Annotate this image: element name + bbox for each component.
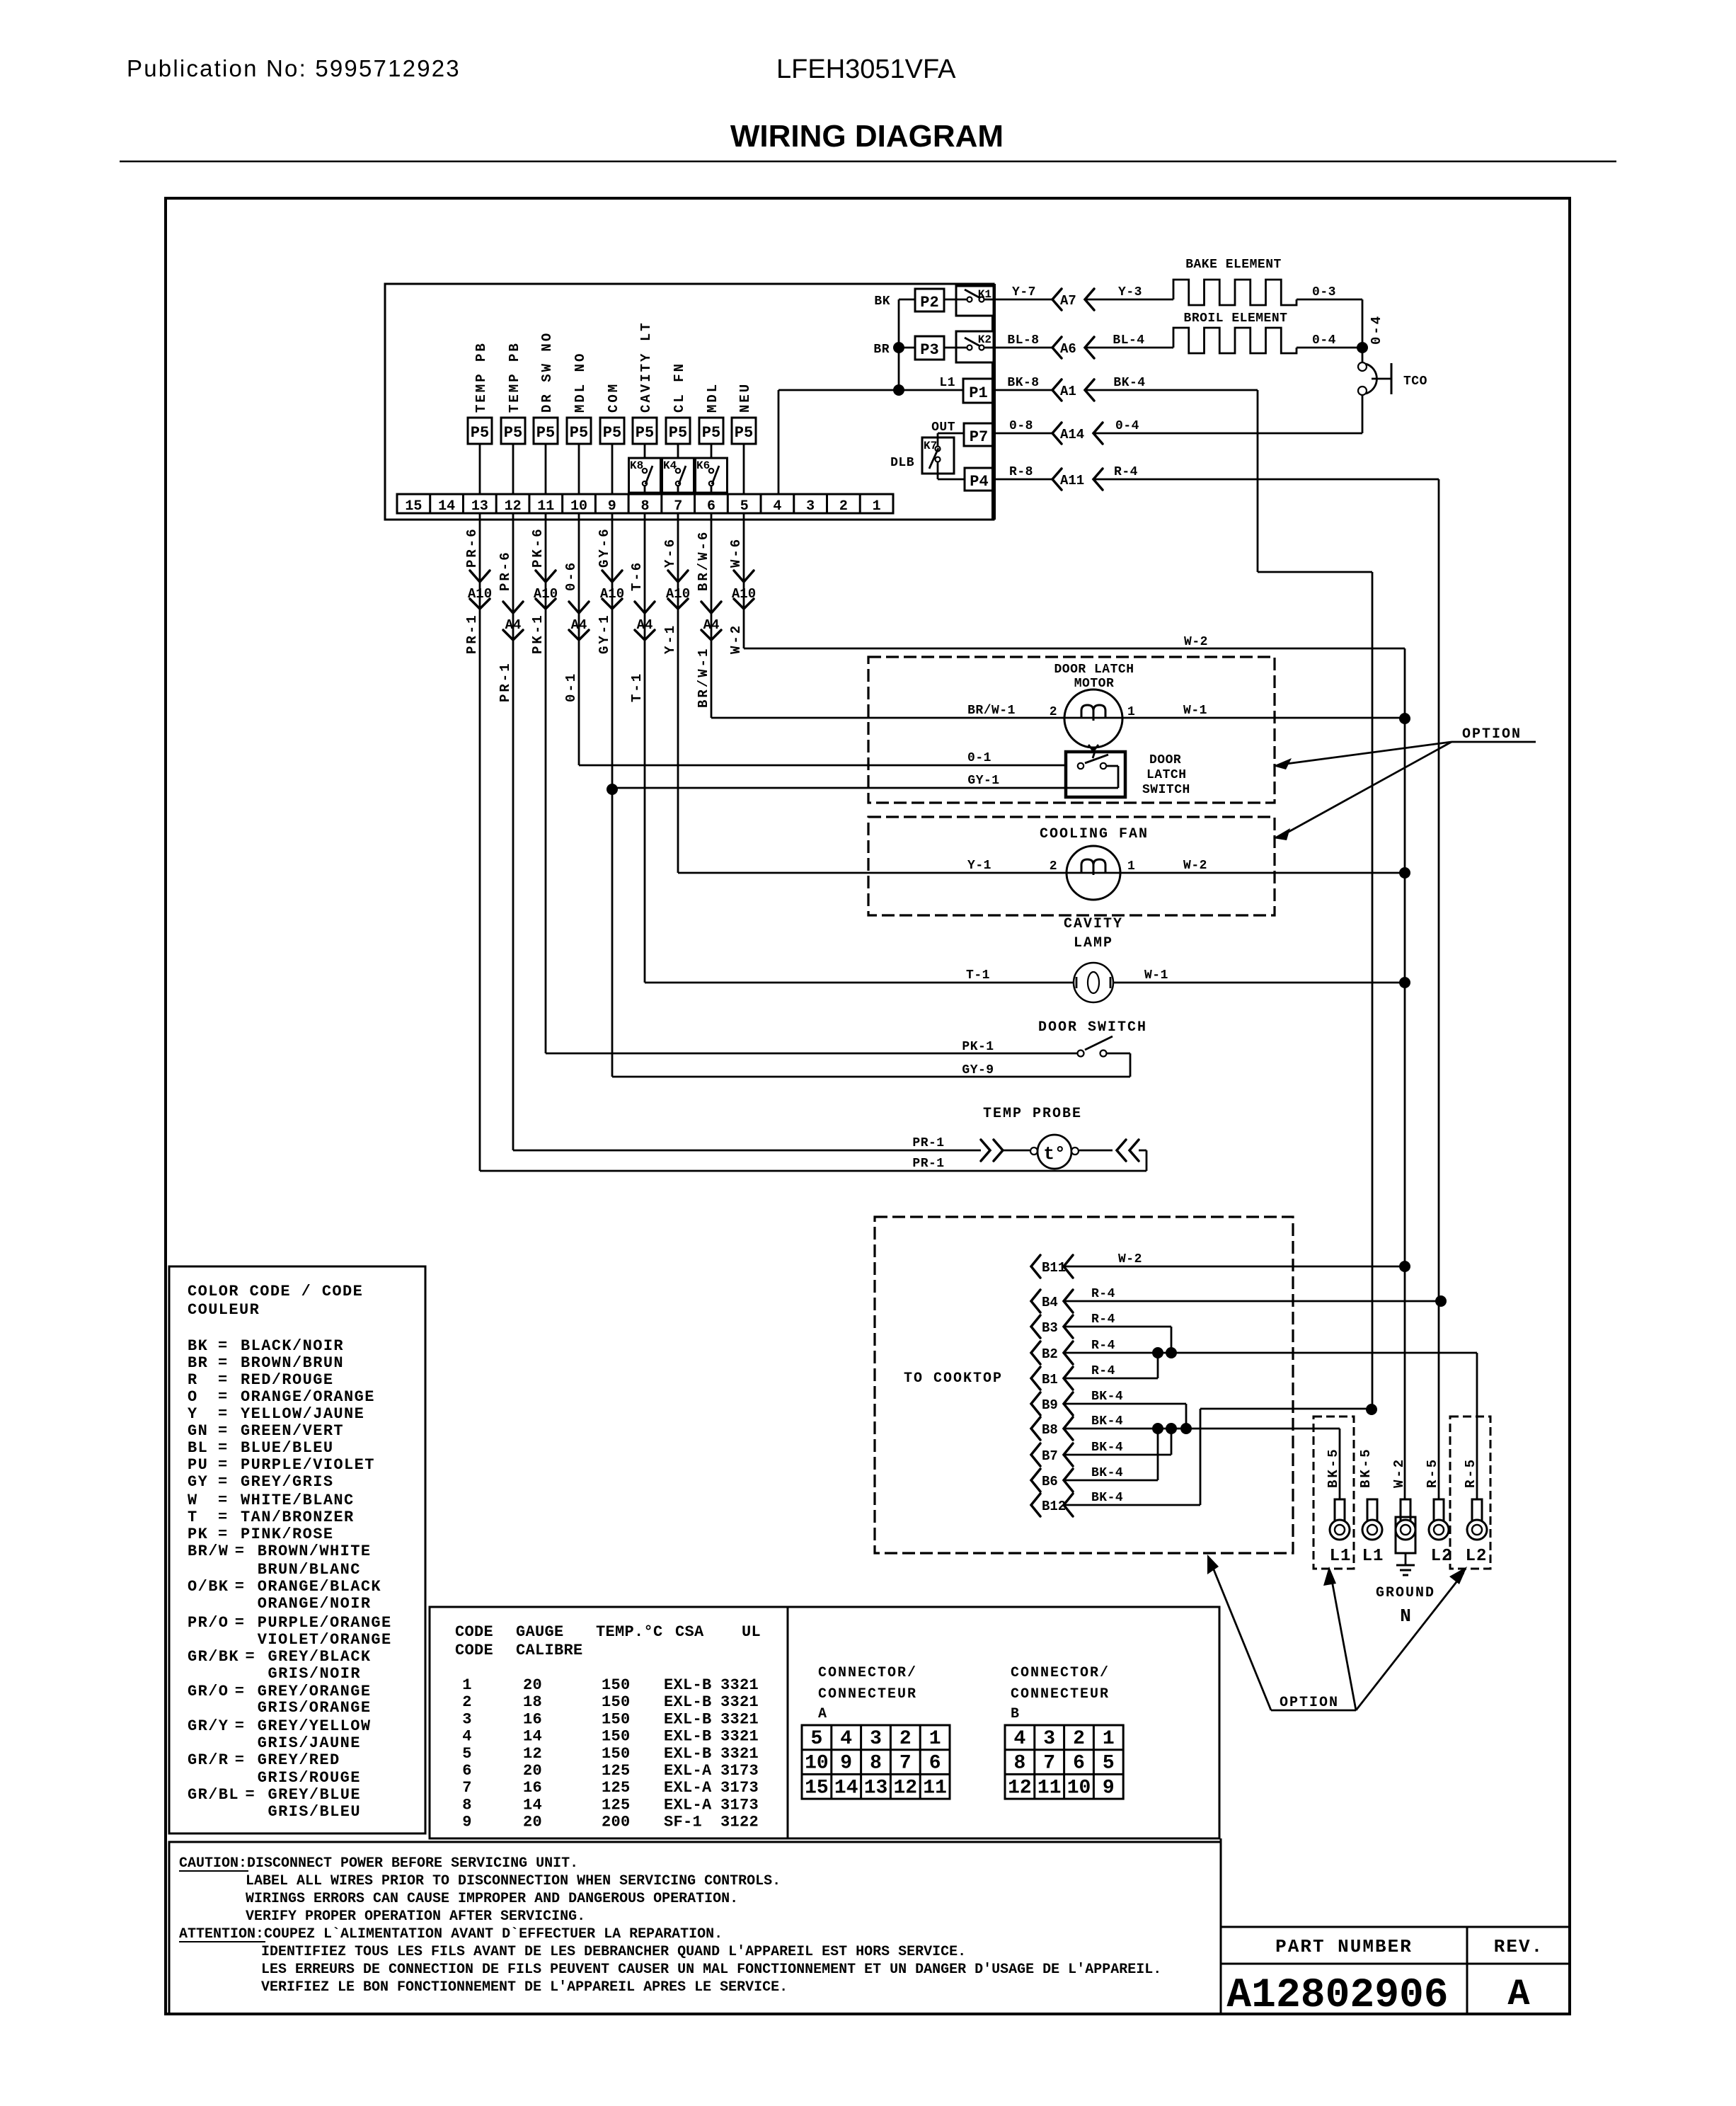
svg-text:EXL-B: EXL-B <box>664 1676 712 1694</box>
svg-text:BR: BR <box>873 343 890 357</box>
svg-text:B2: B2 <box>1042 1346 1058 1362</box>
svg-text:EXL-A: EXL-A <box>664 1779 712 1797</box>
svg-text:GREY/GRIS: GREY/GRIS <box>241 1473 333 1491</box>
svg-text:P1: P1 <box>969 384 987 402</box>
svg-text:1: 1 <box>873 498 881 515</box>
svg-text:9: 9 <box>1103 1777 1115 1799</box>
svg-text:MDL: MDL <box>705 382 720 413</box>
svg-text:GREY/BLACK: GREY/BLACK <box>268 1648 372 1666</box>
svg-text:=: = <box>218 1354 229 1372</box>
svg-text:3173: 3173 <box>720 1762 759 1780</box>
svg-text:20: 20 <box>523 1676 542 1694</box>
svg-text:7: 7 <box>1043 1753 1055 1775</box>
svg-text:W-1: W-1 <box>1183 704 1207 718</box>
svg-text:YELLOW/JAUNE: YELLOW/JAUNE <box>241 1405 364 1423</box>
svg-text:0-3: 0-3 <box>1312 285 1336 299</box>
svg-text:0-6: 0-6 <box>563 561 579 591</box>
svg-text:2: 2 <box>839 498 848 515</box>
svg-text:EXL-A: EXL-A <box>664 1762 712 1780</box>
svg-text:8: 8 <box>462 1796 472 1814</box>
svg-text:=: = <box>235 1614 246 1632</box>
svg-text:P5: P5 <box>603 424 621 442</box>
svg-text:3: 3 <box>462 1710 472 1728</box>
svg-text:6: 6 <box>462 1762 472 1780</box>
svg-text:3321: 3321 <box>720 1710 759 1728</box>
svg-text:A1: A1 <box>1060 384 1076 399</box>
svg-text:W-2: W-2 <box>1118 1252 1142 1266</box>
svg-text:L1: L1 <box>1330 1547 1352 1566</box>
svg-text:7: 7 <box>899 1753 912 1775</box>
svg-text:PR-1: PR-1 <box>912 1157 944 1171</box>
svg-text:K8: K8 <box>630 459 643 472</box>
svg-text:GRIS/BLEU: GRIS/BLEU <box>268 1803 361 1821</box>
svg-text:CAVITY: CAVITY <box>1064 916 1123 932</box>
svg-text:BR/W-6: BR/W-6 <box>696 530 711 591</box>
svg-text:BR/W: BR/W <box>188 1543 229 1560</box>
svg-text:Publication No: 5995712923: Publication No: 5995712923 <box>127 55 461 81</box>
svg-text:R: R <box>188 1371 198 1389</box>
svg-text:BK-5: BK-5 <box>1326 1447 1341 1488</box>
svg-text:K6: K6 <box>696 459 710 472</box>
svg-text:EXL-A: EXL-A <box>664 1796 712 1814</box>
svg-text:PR-1: PR-1 <box>464 613 480 654</box>
svg-text:B8: B8 <box>1042 1422 1058 1438</box>
svg-text:BL-4: BL-4 <box>1113 333 1144 348</box>
svg-text:BL-8: BL-8 <box>1007 333 1039 348</box>
svg-text:DOOR SWITCH: DOOR SWITCH <box>1038 1019 1147 1036</box>
svg-text:COM: COM <box>606 382 621 413</box>
svg-text:A6: A6 <box>1060 341 1076 357</box>
svg-text:B3: B3 <box>1042 1320 1058 1336</box>
svg-text:150: 150 <box>602 1676 631 1694</box>
svg-text:GROUND: GROUND <box>1376 1585 1435 1601</box>
svg-text:125: 125 <box>602 1762 631 1780</box>
svg-text:=: = <box>235 1543 246 1560</box>
svg-text:1: 1 <box>929 1728 941 1750</box>
svg-text:SF-1: SF-1 <box>664 1814 702 1831</box>
svg-text:Y-1: Y-1 <box>967 859 991 873</box>
svg-text:WIRINGS ERRORS CAN CAUSE IMPRO: WIRINGS ERRORS CAN CAUSE IMPROPER AND DA… <box>246 1891 738 1907</box>
svg-text:A14: A14 <box>1060 427 1084 442</box>
svg-text:4: 4 <box>840 1728 852 1750</box>
svg-text:6: 6 <box>707 498 715 515</box>
svg-text:2: 2 <box>1050 705 1057 719</box>
svg-text:R-5: R-5 <box>1463 1458 1478 1488</box>
svg-text:11: 11 <box>537 498 554 515</box>
svg-text:A4: A4 <box>637 617 653 633</box>
svg-text:W-2: W-2 <box>1391 1458 1407 1488</box>
svg-text:GREEN/VERT: GREEN/VERT <box>241 1422 344 1440</box>
svg-text:3173: 3173 <box>720 1796 759 1814</box>
svg-text:4: 4 <box>1013 1728 1025 1750</box>
svg-text:CODE: CODE <box>455 1642 493 1659</box>
svg-text:9: 9 <box>608 498 616 515</box>
svg-text:R-4: R-4 <box>1091 1287 1115 1301</box>
svg-text:3: 3 <box>870 1728 882 1750</box>
svg-text:R-4: R-4 <box>1091 1339 1115 1353</box>
svg-text:10: 10 <box>570 498 587 515</box>
svg-text:O: O <box>188 1388 198 1406</box>
svg-text:K2: K2 <box>978 333 991 346</box>
svg-text:GAUGE: GAUGE <box>516 1623 564 1641</box>
svg-text:B1: B1 <box>1042 1372 1058 1387</box>
svg-text:0-4: 0-4 <box>1312 333 1336 348</box>
svg-text:CSA: CSA <box>675 1623 704 1641</box>
svg-text:GN: GN <box>188 1422 208 1440</box>
svg-text:GR/O: GR/O <box>188 1683 229 1700</box>
svg-text:Y-6: Y-6 <box>662 537 678 568</box>
svg-text:BR: BR <box>188 1354 208 1372</box>
svg-text:2: 2 <box>1050 859 1057 874</box>
svg-text:LES ERREURS DE CONNECTION DE F: LES ERREURS DE CONNECTION DE FILS PEUVEN… <box>261 1962 1161 1978</box>
svg-text:A12802906: A12802906 <box>1226 1973 1448 2019</box>
svg-text:0-8: 0-8 <box>1009 419 1033 433</box>
svg-text:B: B <box>1011 1706 1021 1722</box>
svg-text:CONNECTEUR: CONNECTEUR <box>1011 1686 1110 1702</box>
svg-text:GREY/BLUE: GREY/BLUE <box>268 1786 361 1804</box>
svg-text:=: = <box>218 1509 229 1526</box>
svg-text:=: = <box>218 1492 229 1509</box>
svg-text:A4: A4 <box>571 617 587 633</box>
svg-text:PK: PK <box>188 1526 208 1543</box>
svg-text:DOOR: DOOR <box>1149 753 1181 767</box>
svg-text:PINK/ROSE: PINK/ROSE <box>241 1526 333 1543</box>
svg-text:10: 10 <box>805 1753 829 1775</box>
svg-text:BK-4: BK-4 <box>1091 1390 1123 1404</box>
svg-text:2: 2 <box>1073 1728 1085 1750</box>
svg-text:LATCH: LATCH <box>1146 768 1187 782</box>
svg-text:L1: L1 <box>1362 1547 1384 1566</box>
svg-text:1: 1 <box>1127 705 1135 719</box>
svg-text:GR/Y: GR/Y <box>188 1717 229 1735</box>
svg-text:Y: Y <box>188 1405 198 1423</box>
svg-text:P5: P5 <box>669 424 687 442</box>
svg-text:GR/BL: GR/BL <box>188 1786 239 1804</box>
svg-text:P5: P5 <box>636 424 654 442</box>
svg-text:8: 8 <box>641 498 650 515</box>
svg-text:4: 4 <box>773 498 781 515</box>
svg-text:B7: B7 <box>1042 1448 1058 1464</box>
svg-text:W-1: W-1 <box>1144 968 1168 983</box>
svg-text:3321: 3321 <box>720 1728 759 1746</box>
svg-text:=: = <box>235 1578 246 1596</box>
svg-text:BK-8: BK-8 <box>1007 376 1039 390</box>
svg-text:=: = <box>218 1371 229 1389</box>
svg-text:DOOR LATCH: DOOR LATCH <box>1054 663 1134 677</box>
svg-text:COULEUR: COULEUR <box>188 1301 260 1319</box>
svg-text:9: 9 <box>840 1753 852 1775</box>
svg-text:13: 13 <box>471 498 488 515</box>
svg-text:COOLING FAN: COOLING FAN <box>1040 826 1149 842</box>
svg-text:3321: 3321 <box>720 1693 759 1711</box>
svg-text:W-2: W-2 <box>1183 859 1207 873</box>
svg-text:GR/BK: GR/BK <box>188 1648 239 1666</box>
svg-text:PR-1: PR-1 <box>498 661 513 702</box>
svg-text:N: N <box>1400 1606 1411 1627</box>
svg-text:IDENTIFIEZ TOUS LES FILS AVANT: IDENTIFIEZ TOUS LES FILS AVANT DE LES DE… <box>261 1944 966 1960</box>
svg-text:1: 1 <box>462 1676 472 1694</box>
svg-text:P5: P5 <box>471 424 489 442</box>
svg-text:WHITE/BLANC: WHITE/BLANC <box>241 1492 355 1509</box>
svg-text:CAVITY LT: CAVITY LT <box>638 321 654 413</box>
svg-text:L1: L1 <box>939 376 955 390</box>
svg-text:P5: P5 <box>702 424 720 442</box>
svg-text:BROWN/WHITE: BROWN/WHITE <box>258 1543 372 1560</box>
svg-text:PR-1: PR-1 <box>912 1136 944 1150</box>
svg-text:A4: A4 <box>505 617 522 633</box>
svg-text:A: A <box>1507 1974 1530 2015</box>
svg-text:BROWN/BRUN: BROWN/BRUN <box>241 1354 344 1372</box>
svg-text:CALIBRE: CALIBRE <box>516 1642 583 1659</box>
svg-text:0-1: 0-1 <box>563 672 579 702</box>
svg-text:1: 1 <box>1127 859 1135 874</box>
svg-text:LFEH3051VFA: LFEH3051VFA <box>776 55 956 84</box>
svg-text:7: 7 <box>462 1779 472 1797</box>
svg-text:R-4: R-4 <box>1091 1312 1115 1327</box>
svg-text:CAUTION:DISCONNECT POWER BEFOR: CAUTION:DISCONNECT POWER BEFORE SERVICIN… <box>179 1855 578 1872</box>
svg-text:15: 15 <box>405 498 422 515</box>
svg-text:T-6: T-6 <box>629 561 645 591</box>
svg-text:PURPLE/ORANGE: PURPLE/ORANGE <box>258 1614 392 1632</box>
svg-text:CONNECTOR/: CONNECTOR/ <box>1011 1665 1110 1681</box>
svg-text:P7: P7 <box>970 428 988 446</box>
svg-text:0-4: 0-4 <box>1369 314 1384 345</box>
svg-text:LABEL ALL WIRES PRIOR TO DISCO: LABEL ALL WIRES PRIOR TO DISCONNECTION W… <box>246 1873 781 1889</box>
svg-text:GR/R: GR/R <box>188 1751 229 1769</box>
svg-text:20: 20 <box>523 1762 542 1780</box>
svg-text:PK-1: PK-1 <box>962 1040 994 1054</box>
svg-text:ORANGE/BLACK: ORANGE/BLACK <box>258 1578 381 1596</box>
svg-text:P5: P5 <box>504 424 522 442</box>
svg-text:3321: 3321 <box>720 1745 759 1763</box>
svg-text:P3: P3 <box>920 341 938 359</box>
svg-text:BR/W-1: BR/W-1 <box>696 647 711 708</box>
svg-text:14: 14 <box>834 1777 858 1799</box>
svg-text:150: 150 <box>602 1693 631 1711</box>
svg-text:P2: P2 <box>920 294 938 311</box>
svg-text:6: 6 <box>1073 1753 1085 1775</box>
svg-text:LAMP: LAMP <box>1074 935 1113 951</box>
svg-text:EXL-B: EXL-B <box>664 1710 712 1728</box>
svg-text:W: W <box>188 1492 198 1509</box>
svg-text:ORANGE/ORANGE: ORANGE/ORANGE <box>241 1388 375 1406</box>
svg-text:COLOR CODE / CODE: COLOR CODE / CODE <box>188 1283 363 1300</box>
svg-text:=: = <box>218 1473 229 1491</box>
svg-text:GY-6: GY-6 <box>597 527 612 568</box>
svg-text:=: = <box>218 1405 229 1423</box>
svg-text:CL FN: CL FN <box>672 362 687 413</box>
svg-text:PK-1: PK-1 <box>530 613 546 654</box>
svg-text:BK-5: BK-5 <box>1358 1447 1374 1488</box>
svg-text:BRUN/BLANC: BRUN/BLANC <box>258 1561 361 1579</box>
svg-text:GRIS/ORANGE: GRIS/ORANGE <box>258 1699 372 1717</box>
svg-text:BK-4: BK-4 <box>1113 376 1145 390</box>
svg-text:2: 2 <box>462 1693 472 1711</box>
svg-text:T-1: T-1 <box>629 672 645 702</box>
svg-text:BROIL ELEMENT: BROIL ELEMENT <box>1184 311 1288 326</box>
svg-text:3: 3 <box>1043 1728 1055 1750</box>
svg-text:UL: UL <box>742 1623 761 1641</box>
svg-text:=: = <box>246 1786 256 1804</box>
svg-text:PR/O: PR/O <box>188 1614 229 1632</box>
svg-text:5: 5 <box>462 1745 472 1763</box>
svg-text:TEMP PROBE: TEMP PROBE <box>983 1106 1082 1122</box>
svg-text:VIOLET/ORANGE: VIOLET/ORANGE <box>258 1631 392 1649</box>
svg-text:TEMP PB: TEMP PB <box>507 341 522 413</box>
svg-text:GY-9: GY-9 <box>962 1063 994 1077</box>
svg-text:6: 6 <box>929 1753 941 1775</box>
svg-text:TO COOKTOP: TO COOKTOP <box>904 1370 1003 1387</box>
svg-text:=: = <box>218 1337 229 1355</box>
svg-text:200: 200 <box>602 1814 631 1831</box>
svg-text:BK-4: BK-4 <box>1091 1491 1123 1505</box>
svg-text:=: = <box>218 1456 229 1474</box>
svg-text:BK-4: BK-4 <box>1091 1441 1123 1455</box>
svg-text:16: 16 <box>523 1710 542 1728</box>
svg-text:0-1: 0-1 <box>967 751 991 765</box>
svg-text:8: 8 <box>870 1753 882 1775</box>
svg-text:GREY/ORANGE: GREY/ORANGE <box>258 1683 372 1700</box>
svg-text:OPTION: OPTION <box>1280 1695 1339 1711</box>
svg-text:GRIS/JAUNE: GRIS/JAUNE <box>258 1734 361 1752</box>
svg-text:R-4: R-4 <box>1091 1364 1115 1378</box>
svg-text:O/BK: O/BK <box>188 1578 229 1596</box>
svg-text:15: 15 <box>805 1777 829 1799</box>
svg-text:3173: 3173 <box>720 1779 759 1797</box>
svg-text:W-6: W-6 <box>728 537 744 568</box>
svg-text:GY-1: GY-1 <box>967 774 999 788</box>
svg-text:12: 12 <box>893 1777 917 1799</box>
svg-text:GREY/RED: GREY/RED <box>258 1751 340 1769</box>
svg-text:CONNECTEUR: CONNECTEUR <box>818 1686 917 1702</box>
svg-text:PART NUMBER: PART NUMBER <box>1275 1936 1413 1957</box>
svg-text:ATTENTION:COUPEZ L`ALIMENTATIO: ATTENTION:COUPEZ L`ALIMENTATION AVANT D`… <box>179 1926 723 1942</box>
svg-text:=: = <box>235 1751 246 1769</box>
svg-text:VERIFIEZ LE BON FONCTIONNEMENT: VERIFIEZ LE BON FONCTIONNEMENT DE L'APPA… <box>261 1979 788 1996</box>
svg-text:5: 5 <box>740 498 749 515</box>
svg-text:14: 14 <box>438 498 455 515</box>
svg-text:EXL-B: EXL-B <box>664 1728 712 1746</box>
svg-text:PK-6: PK-6 <box>530 527 546 568</box>
svg-text:Y-1: Y-1 <box>662 624 678 654</box>
svg-text:R-4: R-4 <box>1114 465 1138 479</box>
svg-text:ORANGE/NOIR: ORANGE/NOIR <box>258 1595 372 1613</box>
svg-text:DLB: DLB <box>890 456 914 470</box>
svg-text:5: 5 <box>1103 1753 1115 1775</box>
svg-text:12: 12 <box>505 498 522 515</box>
svg-text:18: 18 <box>523 1693 542 1711</box>
svg-text:K4: K4 <box>663 459 677 472</box>
svg-text:13: 13 <box>864 1777 888 1799</box>
svg-text:PU: PU <box>188 1456 208 1474</box>
svg-text:7: 7 <box>674 498 682 515</box>
svg-text:NEU: NEU <box>737 382 753 413</box>
svg-text:B12: B12 <box>1042 1499 1066 1514</box>
svg-text:20: 20 <box>523 1814 542 1831</box>
svg-text:14: 14 <box>523 1728 542 1746</box>
svg-text:CONNECTOR/: CONNECTOR/ <box>818 1665 917 1681</box>
svg-text:R-5: R-5 <box>1425 1458 1440 1488</box>
svg-text:B6: B6 <box>1042 1474 1058 1489</box>
svg-text:TCO: TCO <box>1403 374 1427 389</box>
svg-text:TAN/BRONZER: TAN/BRONZER <box>241 1509 355 1526</box>
svg-text:11: 11 <box>923 1777 947 1799</box>
svg-text:150: 150 <box>602 1710 631 1728</box>
svg-text:GREY/YELLOW: GREY/YELLOW <box>258 1717 372 1735</box>
svg-text:REV.: REV. <box>1494 1936 1544 1957</box>
svg-text:BK-4: BK-4 <box>1091 1466 1123 1480</box>
svg-text:0-4: 0-4 <box>1115 419 1139 433</box>
svg-text:P5: P5 <box>536 424 555 442</box>
svg-text:A4: A4 <box>703 617 720 633</box>
svg-text:PR-6: PR-6 <box>498 550 513 591</box>
svg-text:11: 11 <box>1037 1777 1062 1799</box>
svg-text:=: = <box>235 1717 246 1735</box>
svg-text:2: 2 <box>899 1728 912 1750</box>
svg-text:5: 5 <box>810 1728 822 1750</box>
svg-text:B4: B4 <box>1042 1295 1058 1310</box>
svg-text:A: A <box>818 1706 828 1722</box>
svg-text:TEMP.°C: TEMP.°C <box>596 1623 663 1641</box>
svg-text:=: = <box>246 1648 256 1666</box>
svg-text:GRIS/ROUGE: GRIS/ROUGE <box>258 1769 361 1787</box>
svg-text:BR/W-1: BR/W-1 <box>967 704 1016 718</box>
svg-text:CODE: CODE <box>455 1623 493 1641</box>
svg-text:=: = <box>218 1388 229 1406</box>
svg-text:W-2: W-2 <box>1184 635 1208 649</box>
svg-text:BLACK/NOIR: BLACK/NOIR <box>241 1337 344 1355</box>
svg-text:4: 4 <box>462 1728 472 1746</box>
svg-text:150: 150 <box>602 1728 631 1746</box>
svg-text:A11: A11 <box>1060 473 1084 488</box>
svg-text:12: 12 <box>523 1745 542 1763</box>
svg-text:EXL-B: EXL-B <box>664 1693 712 1711</box>
svg-text:PR-6: PR-6 <box>464 527 480 568</box>
svg-text:3321: 3321 <box>720 1676 759 1694</box>
svg-text:Y-3: Y-3 <box>1118 285 1142 299</box>
svg-text:SWITCH: SWITCH <box>1142 783 1190 797</box>
svg-text:P5: P5 <box>735 424 753 442</box>
svg-text:BK: BK <box>874 294 890 309</box>
svg-text:=: = <box>218 1439 229 1457</box>
svg-text:=: = <box>218 1526 229 1543</box>
svg-text:Y-7: Y-7 <box>1012 285 1036 299</box>
svg-text:3122: 3122 <box>720 1814 759 1831</box>
svg-text:PURPLE/VIOLET: PURPLE/VIOLET <box>241 1456 375 1474</box>
svg-text:1: 1 <box>1103 1728 1115 1750</box>
svg-text:MDL NO: MDL NO <box>573 352 588 413</box>
svg-text:B11: B11 <box>1042 1260 1066 1276</box>
svg-text:12: 12 <box>1008 1777 1032 1799</box>
svg-text:BL: BL <box>188 1439 208 1457</box>
svg-text:3: 3 <box>806 498 815 515</box>
svg-text:BAKE ELEMENT: BAKE ELEMENT <box>1185 258 1282 272</box>
svg-text:=: = <box>235 1683 246 1700</box>
svg-text:T-1: T-1 <box>966 968 990 983</box>
svg-text:9: 9 <box>462 1814 472 1831</box>
svg-text:B9: B9 <box>1042 1397 1058 1413</box>
svg-text:GRIS/NOIR: GRIS/NOIR <box>268 1665 361 1683</box>
svg-text:10: 10 <box>1067 1777 1091 1799</box>
svg-text:WIRING DIAGRAM: WIRING DIAGRAM <box>730 119 1004 154</box>
svg-text:t°: t° <box>1043 1143 1065 1164</box>
svg-text:TEMP PB: TEMP PB <box>473 341 489 413</box>
svg-text:RED/ROUGE: RED/ROUGE <box>241 1371 333 1389</box>
svg-text:8: 8 <box>1013 1753 1025 1775</box>
svg-text:P5: P5 <box>570 424 588 442</box>
svg-text:A7: A7 <box>1060 293 1076 309</box>
svg-text:OPTION: OPTION <box>1462 726 1522 743</box>
